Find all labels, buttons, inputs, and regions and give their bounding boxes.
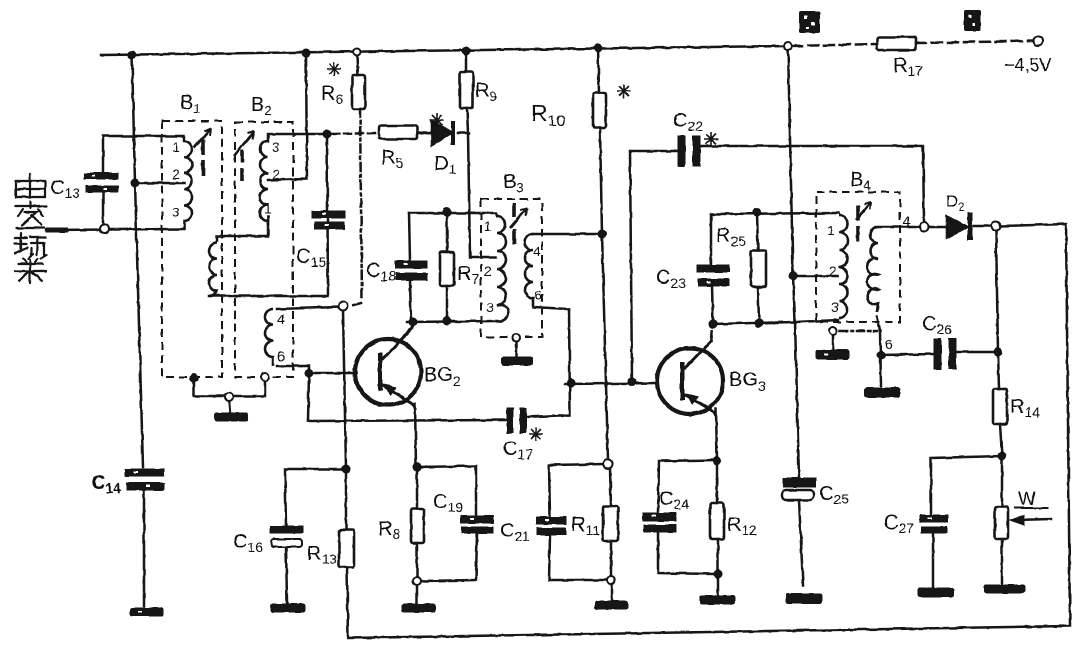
pin 4 B4 bbox=[903, 213, 911, 229]
ground under W bbox=[984, 585, 1025, 593]
node BG3 collector junction bbox=[713, 457, 721, 465]
node R11 ground open junction bbox=[607, 576, 615, 584]
node R10 R11 open junction bbox=[604, 460, 613, 469]
label R10 bbox=[531, 100, 566, 130]
wire C13 bottom lead bbox=[102, 192, 105, 224]
wire R8 top lead bbox=[416, 467, 419, 509]
node R7 bottom junction bbox=[443, 317, 451, 325]
node B4 core ground open junction bbox=[829, 327, 837, 335]
printed blob character right bbox=[964, 10, 981, 31]
wire B2 secondary pin4 to AGC node bbox=[277, 307, 339, 309]
label R6 bbox=[321, 83, 343, 107]
transformer B4 tuning arrow and core bbox=[856, 202, 871, 241]
svg-text:1: 1 bbox=[827, 222, 835, 238]
pin 1 B1 bbox=[172, 139, 180, 155]
resistor R10 bbox=[593, 93, 606, 128]
wire BG2 collector down to R8 C19 node bbox=[415, 404, 416, 466]
wire R9 bottom through D1 node to B3 tap bbox=[467, 108, 496, 257]
label C24 bbox=[659, 488, 689, 512]
resistor R6 bbox=[352, 75, 365, 109]
pin 4 B2 bbox=[277, 311, 285, 327]
node R25 top junction bbox=[753, 208, 761, 216]
label C18 bbox=[366, 260, 396, 284]
label R5 bbox=[381, 147, 403, 171]
wire output node down to C26 R14 bbox=[996, 231, 998, 352]
wire BG3 collector down to R12 C24 node bbox=[716, 409, 717, 460]
wire R11 top lead bbox=[610, 468, 611, 506]
capacitor C27 bbox=[920, 515, 948, 533]
transformer B1 primary winding bbox=[184, 141, 192, 229]
wire W wiper arrow bbox=[1010, 515, 1051, 525]
node BG3 emitter tank junction bbox=[709, 320, 717, 328]
node R6 top open junction bbox=[354, 49, 361, 56]
transformer B1 shield box bbox=[162, 121, 222, 377]
svg-text:1: 1 bbox=[484, 218, 492, 234]
label C22 bbox=[673, 110, 703, 134]
capacitor C23 bbox=[697, 265, 729, 286]
node shared ground open junction bbox=[225, 393, 233, 401]
svg-text:4: 4 bbox=[533, 243, 541, 259]
pin 3 B3 bbox=[486, 299, 494, 315]
wire B2 secondary pin6 to BG2 base node bbox=[277, 366, 309, 373]
label -4.5V supply bbox=[1004, 55, 1052, 75]
ground under R12 bbox=[700, 596, 735, 604]
capacitor C18 bbox=[395, 261, 427, 280]
wire B1 pin2 tap bbox=[135, 182, 184, 185]
svg-text:3: 3 bbox=[172, 204, 180, 220]
label C15 bbox=[296, 246, 326, 270]
diode D1 bbox=[432, 121, 453, 145]
wire D1 to R9 vertical bbox=[458, 132, 469, 135]
pin 3 B4 bbox=[831, 299, 839, 315]
transformer B1 secondary winding bbox=[209, 243, 217, 296]
label C17 bbox=[503, 438, 533, 462]
svg-text:2: 2 bbox=[484, 263, 492, 279]
wire C16 ground stem bbox=[286, 547, 287, 603]
label C25 bbox=[819, 483, 849, 507]
transformer B2 secondary winding bbox=[265, 309, 273, 366]
wire B2 pin3 to R5 bbox=[268, 133, 379, 141]
svg-text:1: 1 bbox=[264, 200, 272, 216]
svg-text:4: 4 bbox=[903, 213, 911, 229]
resistor R17 bbox=[877, 37, 916, 50]
svg-text:6: 6 bbox=[277, 348, 285, 364]
transformer B3 shield box bbox=[481, 199, 542, 337]
wire supply branch from rail to B4 tap and C25 bbox=[788, 46, 799, 478]
transformer B1 tuning arrow and core bbox=[194, 128, 211, 176]
resistor R5 bbox=[379, 126, 417, 139]
label R9 bbox=[475, 80, 497, 104]
label BG3 bbox=[729, 369, 766, 394]
transformer B4 primary winding bbox=[839, 215, 848, 318]
resistor R25 bbox=[751, 251, 766, 287]
label C14 bbox=[91, 472, 121, 496]
wire C23 top lead and B4 tank top rail bbox=[711, 213, 839, 265]
node C26 B4 pin6 junction bbox=[877, 351, 885, 359]
svg-text:1: 1 bbox=[172, 139, 180, 155]
node R25 bottom junction bbox=[755, 319, 763, 327]
pin 1 B4 bbox=[827, 222, 835, 238]
wire B3 secondary pin6 lead bbox=[533, 307, 569, 309]
node B4 pin4 open junction bbox=[920, 223, 929, 232]
pin 4 B3 bbox=[533, 243, 541, 259]
label B2 bbox=[251, 94, 272, 118]
wire R25 bottom lead bbox=[758, 287, 759, 323]
svg-text:4: 4 bbox=[277, 311, 285, 327]
node AGC open junction at B2 pin4 bbox=[339, 302, 348, 311]
svg-text:W: W bbox=[1018, 489, 1036, 510]
transformer B3 primary winding bbox=[497, 216, 508, 322]
label R14 bbox=[1010, 396, 1040, 420]
asterisk near R6 bbox=[327, 62, 341, 76]
asterisk near D1 bbox=[430, 113, 444, 127]
wire BG3 base line bbox=[565, 383, 656, 384]
wire R14 top lead bbox=[998, 352, 999, 389]
node C26 R14 junction bbox=[994, 348, 1002, 356]
label D1 bbox=[434, 153, 456, 177]
label R12 bbox=[727, 514, 757, 538]
wire R7 top lead bbox=[446, 212, 449, 252]
wire C23 bottom lead bbox=[712, 286, 713, 324]
printed blob character left bbox=[799, 11, 820, 33]
wire R12 ground stem bbox=[717, 574, 720, 596]
svg-text:3: 3 bbox=[272, 139, 280, 155]
ground under C16 bbox=[271, 604, 305, 612]
resistor R13 bbox=[339, 530, 354, 567]
wire C16 branch top bbox=[285, 469, 346, 526]
wire B1 B2 secondary ground bus bbox=[194, 380, 265, 413]
pin 2 B2 bbox=[272, 166, 280, 182]
svg-text:2: 2 bbox=[829, 263, 837, 279]
ground under C25 bbox=[786, 594, 822, 603]
svg-text:6: 6 bbox=[534, 287, 542, 303]
chinese text input annotation 由变频来 bbox=[15, 174, 46, 283]
wire B4 core ground stem bbox=[833, 331, 877, 350]
wire C21 branch top bbox=[549, 464, 605, 517]
wire R10 bottom lead down to R11 C21 junction bbox=[600, 128, 608, 460]
wire R12 top lead bbox=[716, 461, 719, 503]
capacitor C16 bbox=[270, 526, 303, 547]
pin 2 B4 bbox=[829, 263, 837, 279]
label B1 bbox=[180, 92, 201, 116]
resistor R7 bbox=[440, 252, 454, 286]
ground under B3 box bbox=[502, 357, 532, 365]
label C13 bbox=[50, 177, 80, 201]
transformer B3 tuning arrow and core bbox=[510, 203, 527, 244]
ground under R8 bbox=[402, 604, 435, 612]
resistor R12 bbox=[710, 503, 724, 539]
wire B4 pin2 tap bbox=[793, 275, 838, 278]
svg-text:6: 6 bbox=[885, 336, 893, 352]
transformer B3 secondary winding bbox=[525, 234, 533, 307]
ground under R11 bbox=[595, 601, 628, 609]
wire B1 secondary top to B2 pin1 bbox=[217, 216, 268, 241]
asterisk near C17 bbox=[529, 427, 543, 441]
wire C26 right lead bbox=[956, 351, 998, 354]
wire C19 branch top bbox=[417, 466, 476, 516]
svg-text:2: 2 bbox=[172, 166, 180, 182]
asterisk near C22 bbox=[704, 132, 718, 146]
label R11 bbox=[571, 514, 600, 538]
node rail junction at R9 bbox=[462, 47, 470, 55]
svg-text:3: 3 bbox=[831, 299, 839, 315]
asterisk near R10 bbox=[617, 84, 631, 98]
power terminal -4.5V bbox=[1034, 37, 1043, 46]
wire B3 core ground stem bbox=[515, 342, 518, 357]
resistor R11 bbox=[603, 506, 618, 541]
node B1 secondary ground junction bbox=[190, 374, 198, 382]
wire C13 top lead and B1 pin1 wire bbox=[103, 136, 184, 173]
label C19 bbox=[433, 491, 463, 515]
node B2 secondary ground open junction bbox=[261, 373, 269, 381]
pin 6 B3 bbox=[534, 287, 542, 303]
label C26 bbox=[922, 313, 952, 337]
pin 6 B4 bbox=[885, 336, 893, 352]
capacitor C14 bbox=[125, 469, 164, 490]
node R13 C16 junction bbox=[342, 465, 350, 473]
diode D2 bbox=[947, 212, 970, 240]
wire C26 left lead bbox=[881, 354, 934, 355]
label R8 bbox=[378, 518, 400, 542]
wire rail to B2 pin2 bbox=[268, 53, 307, 180]
node B1 pin2 junction bbox=[131, 179, 139, 187]
node R8 ground open junction bbox=[413, 577, 421, 585]
node C13 input open junction bbox=[100, 225, 109, 234]
node rail junction at R10 bbox=[594, 44, 602, 52]
wire C18 bottom lead bbox=[410, 280, 411, 321]
label W bbox=[1018, 489, 1036, 510]
node B4 tap supply junction bbox=[789, 272, 797, 280]
wire BG2 base bbox=[309, 372, 356, 375]
capacitor C25 bbox=[782, 478, 816, 500]
wire B4 secondary pin6 down to ground bbox=[877, 316, 881, 386]
ground under C27 bbox=[918, 588, 954, 597]
ground under B4 pin6 bbox=[865, 388, 900, 397]
capacitor C22 bbox=[678, 136, 700, 166]
label BG2 bbox=[424, 364, 461, 389]
label C23 bbox=[656, 267, 686, 291]
node rail junction at B2 pin2 branch bbox=[302, 49, 310, 57]
node BG2 base junction bbox=[305, 369, 313, 377]
transistor BG3 bbox=[657, 330, 723, 416]
wire R8 ground stem bbox=[416, 584, 419, 603]
wire R7 bottom lead bbox=[446, 286, 449, 321]
wire D2 cathode to output node bbox=[974, 225, 991, 228]
wire C14 bottom lead bbox=[143, 490, 146, 606]
wire C24 branch bottom bbox=[658, 532, 714, 574]
capacitor C19 bbox=[461, 516, 493, 533]
capacitor C17 bbox=[507, 408, 526, 433]
node C15 top junction bbox=[323, 130, 331, 138]
wire AGC vertical to R13 C16 bbox=[343, 310, 346, 469]
label C16 bbox=[233, 531, 263, 555]
wire C19 branch bottom bbox=[422, 533, 477, 581]
pin 3 B2 bbox=[272, 139, 280, 155]
wire R6 top lead bbox=[357, 56, 358, 75]
wire C25 ground stem bbox=[799, 500, 803, 585]
node BG3 base C22 junction bbox=[628, 378, 636, 386]
wire rail dashed segment to R17 bbox=[792, 44, 877, 46]
pin 3 B1 bbox=[172, 204, 180, 220]
label C27 bbox=[884, 512, 914, 536]
node D2 output open junction bbox=[992, 222, 1001, 231]
transformer B2 primary winding bbox=[260, 141, 268, 226]
svg-text:2: 2 bbox=[272, 166, 280, 182]
wire B4 secondary pin4 to D2 bbox=[878, 226, 919, 229]
node BG2 emitter tank junction bbox=[409, 318, 417, 326]
label D2 bbox=[946, 192, 965, 214]
node B3 core ground open junction bbox=[512, 334, 520, 342]
wire C24 branch top bbox=[658, 460, 717, 513]
resistor R9 bbox=[460, 72, 473, 108]
wire C18 top lead bbox=[409, 213, 410, 261]
potentiometer W bbox=[995, 507, 1048, 539]
wire D2 anode from node bbox=[929, 226, 947, 229]
wire BG3 emitter tank rail to B4 pin3 bbox=[713, 320, 838, 324]
pin 2 B3 bbox=[484, 263, 492, 279]
terminal bar under C14 bbox=[130, 608, 163, 616]
ground under B1 B2 windings bbox=[215, 413, 248, 421]
wire R12 bottom lead bbox=[717, 539, 720, 574]
transistor BG2 bbox=[355, 323, 421, 410]
node BG3 base C17 junction bbox=[567, 379, 575, 387]
wire R11 bottom lead bbox=[610, 541, 613, 576]
wire R25 top lead bbox=[757, 212, 758, 251]
label R13 bbox=[307, 543, 337, 567]
transformer B2 tuning arrow and core bbox=[234, 131, 254, 181]
wire R11 ground stem bbox=[611, 584, 614, 601]
resistor R8 bbox=[411, 509, 424, 543]
wire C17 left lead bbox=[308, 420, 507, 421]
wire C21 branch bottom bbox=[549, 535, 606, 580]
wire B3 pin6 vertical through BG3 base junction bbox=[569, 309, 570, 415]
node BG2 collector junction bbox=[413, 463, 421, 471]
transformer B4 secondary winding bbox=[867, 227, 878, 312]
wire B3 secondary pin4 to R10 junction bbox=[533, 233, 602, 236]
wire R10 top lead from rail bbox=[598, 48, 599, 93]
resistor R14 bbox=[993, 389, 1007, 424]
transformer B2 shield box bbox=[235, 122, 293, 377]
wire C22 left lead and vertical to BG3 base bbox=[630, 151, 678, 382]
wire R8 bottom to ground circle bbox=[416, 543, 419, 578]
wire R14 bottom lead bbox=[1000, 424, 1002, 456]
wire W pot bottom lead to ground bbox=[1001, 539, 1004, 584]
wire R5 to D1 bbox=[417, 132, 431, 135]
wire input line from converter bbox=[46, 229, 184, 230]
ground under B4 core bbox=[816, 350, 849, 359]
pin 6 B2 bbox=[277, 348, 285, 364]
wire left vertical from rail to C14 bbox=[132, 55, 143, 467]
wire C17 right lead up to BG3 base line bbox=[526, 415, 569, 417]
wire BG2 base node down to C17 bbox=[308, 373, 309, 421]
svg-text:−4,5V: −4,5V bbox=[1004, 55, 1052, 75]
label R25 bbox=[716, 225, 746, 249]
transformer B4 shield box bbox=[816, 192, 900, 322]
label R17 bbox=[893, 55, 923, 79]
wire C27 ground stem bbox=[932, 533, 935, 587]
node rail junction at C13 branch bbox=[128, 51, 136, 59]
node B3 pin4 R10 junction bbox=[598, 230, 606, 238]
node R12 ground junction bbox=[714, 570, 722, 578]
node rail open junction at R17 branch bbox=[784, 42, 792, 50]
wire C22 right lead over to D2 node bbox=[700, 146, 924, 222]
wire R13 top lead bbox=[345, 469, 348, 530]
wire R14 node to C27 bbox=[931, 456, 1002, 515]
capacitor C21 bbox=[536, 517, 566, 535]
label B3 bbox=[503, 171, 524, 195]
label R7 bbox=[457, 263, 479, 287]
wire R6 bottom dash-dot lead down to AGC node bbox=[350, 109, 362, 306]
capacitor C15 bbox=[312, 211, 345, 229]
label B4 bbox=[850, 169, 871, 193]
label C21 bbox=[500, 520, 530, 544]
wire dashed segment R17 to -4.5V terminal bbox=[916, 41, 1032, 43]
wire B3 tank top rail bbox=[409, 213, 497, 216]
pin 1 B2 bbox=[264, 200, 272, 216]
wire top supply rail bbox=[101, 46, 788, 55]
pin 2 B1 bbox=[172, 166, 180, 182]
wire output node to right edge and bottom return rail bbox=[347, 224, 1070, 638]
capacitor C24 bbox=[643, 513, 676, 532]
wire W pot top lead bbox=[1001, 456, 1004, 507]
wire R9 top lead from rail bbox=[465, 51, 468, 72]
wire C15 branch vertical bbox=[209, 134, 328, 296]
wire B3 tank bottom rail to pin3 bbox=[407, 321, 497, 322]
pin 1 B3 bbox=[484, 218, 492, 234]
node R7 top junction bbox=[443, 208, 451, 216]
capacitor C26 bbox=[934, 339, 956, 369]
node R14 W junction bbox=[998, 452, 1006, 460]
capacitor C13 bbox=[84, 173, 118, 192]
svg-text:3: 3 bbox=[486, 299, 494, 315]
